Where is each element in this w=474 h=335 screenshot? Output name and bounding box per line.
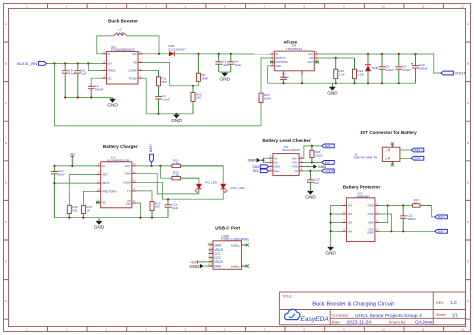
wire R22 to PG LED bbox=[180, 178, 199, 183]
resistor R14 1.2K bbox=[353, 58, 365, 83]
pin VM 2 bbox=[342, 212, 347, 214]
no-connect mount top bbox=[391, 142, 394, 145]
port BAT+ checker bbox=[322, 144, 335, 148]
ground flag USB bbox=[189, 264, 203, 269]
wire ISET to R16 bbox=[69, 175, 96, 206]
wire VS to VOUT bbox=[304, 170, 322, 172]
wire VIN+ to BAT+ row bbox=[304, 146, 322, 158]
pin ISET2 7 bbox=[96, 181, 101, 183]
resistor R5 158K bbox=[196, 54, 209, 81]
svg-text:10uF: 10uF bbox=[58, 173, 65, 177]
node A tie bbox=[262, 159, 264, 161]
wire OUT row with R21 bbox=[136, 165, 170, 167]
port BUCK_VIN bbox=[17, 61, 46, 66]
wire VM bus bbox=[331, 206, 342, 247]
svg-text:F: F bbox=[467, 220, 469, 224]
svg-text:TS: TS bbox=[127, 189, 131, 193]
LED CHG_LED bbox=[221, 184, 246, 193]
node buck rail junctions bbox=[157, 113, 159, 115]
wire BUCK_VIN down to R12 return bbox=[54, 63, 261, 126]
svg-text:100K: 100K bbox=[264, 96, 272, 100]
resistor R19 1K bbox=[81, 205, 92, 218]
inductor L2 3.3uH bbox=[114, 28, 126, 36]
svg-text:IN: IN bbox=[102, 164, 105, 168]
pin VBUS A9 bbox=[209, 259, 223, 265]
svg-text:GND: GND bbox=[214, 264, 222, 268]
pin FREQ 7 bbox=[102, 69, 107, 71]
ground charger bbox=[94, 218, 105, 230]
svg-text:TPS259621: TPS259621 bbox=[286, 47, 303, 51]
svg-text:MV/FLTb: MV/FLTb bbox=[276, 57, 286, 60]
port BAT- JST bbox=[411, 156, 424, 160]
wire GND8 to R17 bbox=[379, 205, 411, 207]
wire eFuse OUT node bbox=[319, 54, 441, 73]
pin VBUS B9 bbox=[209, 247, 223, 253]
wire EN to FREQ tie bbox=[88, 63, 102, 70]
pin EN 3 bbox=[102, 62, 107, 64]
svg-text:GND: GND bbox=[171, 118, 182, 123]
op-amp U3 charger IC3 BQ24090DGQR bbox=[107, 155, 130, 162]
pin CHG 4 bbox=[132, 181, 137, 183]
ground protector left bbox=[325, 246, 336, 255]
op-amp U2 eFuse IC4 TPS259621 bbox=[286, 44, 303, 51]
port VOUT checker bbox=[322, 169, 335, 173]
node R23 top bbox=[311, 145, 313, 147]
svg-text:470pF: 470pF bbox=[402, 68, 411, 72]
svg-text:USB-C Port: USB-C Port bbox=[215, 226, 240, 231]
pin OUT bbox=[314, 52, 319, 54]
wire SW to diode bbox=[143, 53, 169, 55]
pin GND A12 bbox=[208, 263, 222, 269]
node OUT junctions bbox=[367, 53, 369, 55]
svg-text:VOUT: VOUT bbox=[455, 70, 467, 75]
wire ISET2 to ground net bbox=[54, 182, 96, 184]
wire CHG LED cathode to CHG pin bbox=[136, 182, 223, 199]
EasyEDA logo bbox=[285, 309, 330, 323]
svg-text:12: 12 bbox=[461, 5, 465, 9]
wire A1 A0 tie bbox=[263, 158, 268, 162]
svg-text:SCL: SCL bbox=[253, 169, 260, 173]
LED PG_LED bbox=[195, 181, 218, 193]
connector J1 S2B-PH-SM4-TB bbox=[354, 145, 400, 164]
wire buck ground rail bbox=[146, 113, 193, 115]
svg-text:GAJose: GAJose bbox=[415, 320, 433, 326]
wire IN pin riser to inductor bbox=[97, 36, 114, 54]
svg-text:FB: FB bbox=[133, 61, 137, 65]
pin SHELL top bbox=[231, 243, 246, 247]
pin dVdT NC bbox=[314, 60, 319, 62]
port BAT+ protector bbox=[435, 215, 448, 219]
resistor R12 100K bbox=[259, 93, 272, 104]
wire IN rail bbox=[54, 165, 96, 167]
pin MODE bbox=[270, 56, 275, 58]
svg-text:GND: GND bbox=[107, 102, 118, 107]
pin GND B12 bbox=[208, 242, 222, 248]
node BUCK_VIN junctions bbox=[53, 62, 55, 64]
wire ILM to resistors bbox=[319, 57, 355, 59]
svg-text:H: H bbox=[467, 299, 469, 303]
svg-text:BUCK_VIN: BUCK_VIN bbox=[17, 61, 37, 66]
svg-text:1uF: 1uF bbox=[81, 72, 86, 76]
no-connect mount bottom bbox=[391, 163, 394, 166]
svg-text:1.2K: 1.2K bbox=[339, 72, 346, 76]
svg-text:2023-11-24: 2023-11-24 bbox=[347, 320, 372, 326]
capacitor C1 3.3nF bbox=[155, 86, 170, 114]
pin PAD bottom bbox=[301, 71, 303, 75]
wire pad to rail bbox=[301, 75, 303, 83]
resistor R15 10K bbox=[150, 201, 161, 217]
wire PRE-TERM to R19 bbox=[83, 191, 96, 205]
resistor R22 1.5K bbox=[171, 171, 199, 180]
node IN junctions bbox=[53, 165, 55, 167]
svg-text:ILM: ILM bbox=[309, 57, 313, 60]
wire J1 pin2 to BAT- bbox=[400, 157, 411, 159]
ground checker bbox=[305, 190, 316, 199]
wire R21 to CHG LED bbox=[180, 166, 223, 184]
svg-text:1.0: 1.0 bbox=[450, 300, 457, 305]
capacitor C10 100uF polarized bbox=[411, 54, 428, 83]
pin OUT 10 bbox=[132, 164, 137, 166]
svg-text:1.5K: 1.5K bbox=[173, 174, 180, 178]
svg-text:EN: EN bbox=[108, 62, 112, 66]
pin CC1 A5 bbox=[209, 250, 221, 256]
pin ISET 2 bbox=[96, 173, 101, 175]
pin SHELL bottom bbox=[231, 264, 246, 268]
wire FB to divider bbox=[143, 62, 194, 85]
ground buck output bbox=[171, 114, 182, 123]
svg-text:10: 10 bbox=[382, 5, 386, 9]
op-amp U4 monitor IC5 INA219AIDR bbox=[282, 145, 300, 152]
capacitor C13 10uF bbox=[165, 199, 179, 218]
svg-text:EasyEDA: EasyEDA bbox=[301, 316, 330, 323]
svg-text:1.2K: 1.2K bbox=[357, 72, 364, 76]
svg-text:GND: GND bbox=[248, 159, 257, 163]
svg-text:11: 11 bbox=[421, 5, 424, 9]
svg-text:F: F bbox=[5, 220, 7, 224]
svg-text:EPAD: EPAD bbox=[367, 231, 374, 234]
svg-text:PGND: PGND bbox=[129, 76, 137, 80]
svg-text:11: 11 bbox=[421, 328, 424, 332]
node rail junctions bbox=[64, 96, 66, 98]
wire BUCK_VIN to EN pin bbox=[47, 62, 102, 64]
svg-text:+5V: +5V bbox=[69, 152, 76, 156]
svg-text:12: 12 bbox=[461, 328, 465, 332]
pin FB 2 bbox=[138, 61, 143, 63]
resistor R11 15K bbox=[157, 70, 168, 86]
wire R5 to R10 jog bbox=[193, 81, 198, 86]
capacitor C3 10uF bbox=[215, 54, 229, 72]
resistor R23 0.002 shunt bbox=[310, 146, 323, 163]
svg-text:PG#: PG# bbox=[125, 171, 131, 175]
wire inductor to SW node bbox=[126, 36, 159, 54]
svg-text:Company:: Company: bbox=[332, 313, 349, 317]
pin COMP 1 bbox=[138, 69, 143, 71]
node VIN- junction bbox=[311, 161, 313, 163]
pin NC 10 bbox=[96, 201, 101, 203]
wire PGND down bbox=[143, 78, 147, 114]
pin IN bbox=[270, 52, 275, 54]
node SW inductor junction bbox=[158, 53, 160, 55]
node C15 tap bbox=[309, 170, 311, 172]
svg-text:100nF: 100nF bbox=[95, 87, 104, 91]
svg-text:Battery Level Checker: Battery Level Checker bbox=[262, 138, 310, 143]
svg-text:COMP: COMP bbox=[128, 69, 137, 73]
svg-text:10uF: 10uF bbox=[222, 63, 229, 67]
pin IN 3 bbox=[96, 164, 101, 166]
svg-text:BAT+: BAT+ bbox=[415, 148, 423, 152]
ground input rail bbox=[107, 98, 118, 108]
svg-text:Drawn By:: Drawn By: bbox=[389, 320, 407, 324]
svg-text:10K: 10K bbox=[155, 205, 161, 209]
svg-text:100nF: 100nF bbox=[385, 68, 394, 72]
wire VM3 bbox=[331, 222, 342, 224]
svg-text:REV: REV bbox=[436, 301, 444, 305]
power flag +5V USB bbox=[190, 260, 206, 264]
wire charger ground rail bbox=[54, 217, 168, 219]
port BAT+ JST bbox=[411, 148, 424, 152]
wire VM4 bbox=[331, 230, 342, 232]
pin ILM bbox=[314, 56, 319, 58]
svg-text:10nF: 10nF bbox=[282, 75, 289, 79]
svg-text:536: 536 bbox=[72, 209, 77, 213]
pin A0 bbox=[268, 161, 273, 163]
svg-text:Battery Charger: Battery Charger bbox=[103, 144, 138, 149]
pin PG 1 bbox=[132, 172, 137, 174]
svg-text:3.3nF: 3.3nF bbox=[162, 98, 170, 102]
svg-text:VM: VM bbox=[348, 204, 353, 208]
svg-text:OUT: OUT bbox=[125, 164, 131, 168]
pin SCL bbox=[268, 169, 273, 171]
ground flag GND pin bbox=[304, 164, 327, 169]
svg-text:GND: GND bbox=[219, 76, 230, 81]
svg-text:15K: 15K bbox=[161, 80, 167, 84]
pin PRE-TERM 6 bbox=[96, 190, 101, 192]
wire VSS to rail bbox=[136, 203, 140, 218]
svg-text:SL23 E3/52T: SL23 E3/52T bbox=[168, 47, 186, 51]
capacitor C15 1uF bbox=[307, 171, 320, 190]
svg-text:Buck Booster: Buck Booster bbox=[108, 19, 138, 24]
wire PG LED cathode to PG pin bbox=[136, 173, 199, 194]
port SDA bbox=[252, 165, 268, 169]
svg-text:VS: VS bbox=[294, 169, 298, 173]
svg-text:10uF: 10uF bbox=[171, 206, 178, 210]
svg-text:SS: SS bbox=[108, 76, 112, 80]
pin VM 1 bbox=[342, 204, 347, 206]
svg-text:B12: B12 bbox=[208, 242, 213, 246]
wire COMP to R11 bbox=[143, 69, 159, 71]
pin VIN- bbox=[299, 161, 304, 163]
svg-text:PG_LED: PG_LED bbox=[205, 181, 218, 185]
svg-text:PRE-TERM: PRE-TERM bbox=[102, 189, 117, 193]
capacitor C4 10uF bbox=[227, 54, 241, 72]
svg-text:VSS: VSS bbox=[126, 203, 131, 206]
wire VM2 bbox=[331, 213, 342, 215]
port SCL bbox=[253, 169, 269, 173]
wire VIN- row bbox=[304, 161, 322, 163]
node FB divider junction bbox=[192, 85, 194, 87]
node C11 top bbox=[402, 204, 404, 206]
svg-text:ISET: ISET bbox=[102, 173, 109, 177]
port BAT+ charger bbox=[149, 144, 154, 166]
svg-text:IN: IN bbox=[108, 52, 111, 56]
svg-text:Sheet:: Sheet: bbox=[436, 313, 446, 317]
title block bbox=[279, 292, 465, 326]
wire eFuse ground rail bbox=[268, 82, 416, 84]
resistor R10 18K bbox=[191, 86, 202, 114]
pin VM 3 bbox=[342, 221, 347, 223]
pin VDD 6 bbox=[375, 221, 380, 223]
svg-text:100uF: 100uF bbox=[419, 67, 428, 71]
capacitor C7 10nF bbox=[280, 71, 287, 83]
svg-text:IN: IN bbox=[276, 53, 279, 56]
wire C3 C4 ground rail bbox=[219, 71, 231, 73]
capacitor C9 470pF bbox=[395, 54, 411, 83]
svg-text:Buck Booster & Charging Circui: Buck Booster & Charging Circuit bbox=[312, 301, 394, 307]
pin SS 8 bbox=[102, 76, 107, 78]
svg-text:OVP/PROT: OVP/PROT bbox=[276, 61, 289, 64]
node charger rail junctions bbox=[68, 217, 70, 219]
wire MODE to R12 bbox=[261, 58, 270, 93]
diode D4 TVS bbox=[365, 54, 378, 83]
svg-text:FREQ: FREQ bbox=[108, 69, 117, 73]
pin PGND 4 bbox=[138, 76, 143, 78]
capacitor C11 100nF bbox=[400, 206, 416, 232]
svg-text:GND: GND bbox=[214, 243, 222, 247]
wire R17 to BAT+ bbox=[432, 206, 435, 217]
svg-text:E: E bbox=[5, 180, 7, 184]
resistor R16 536 bbox=[67, 205, 78, 218]
port VOUT bbox=[441, 70, 466, 75]
svg-text:VOUT: VOUT bbox=[325, 169, 334, 173]
node R22 feed bbox=[159, 165, 161, 167]
svg-text:BAT-: BAT- bbox=[325, 161, 332, 165]
svg-text:0.002: 0.002 bbox=[315, 154, 323, 158]
wire input ground rail bbox=[65, 97, 112, 99]
pin TS 3 bbox=[132, 189, 137, 191]
node BAT+ drop bbox=[150, 165, 152, 167]
svg-text:CHG#: CHG# bbox=[123, 180, 131, 184]
svg-text:GND: GND bbox=[94, 225, 105, 230]
svg-text:BAT+: BAT+ bbox=[325, 144, 333, 148]
node ISET2 tap bbox=[53, 182, 55, 184]
node output junctions bbox=[197, 53, 199, 55]
svg-text:E: E bbox=[467, 180, 469, 184]
resistor R17 1K bbox=[412, 198, 432, 207]
svg-text:TITLE:: TITLE: bbox=[282, 295, 292, 299]
svg-text:INA219AIDR: INA219AIDR bbox=[282, 148, 300, 152]
svg-text:NC: NC bbox=[102, 201, 106, 205]
svg-text:10: 10 bbox=[382, 328, 386, 332]
wire output node bbox=[174, 53, 275, 55]
svg-text:BAT-: BAT- bbox=[438, 230, 445, 234]
svg-text:Date:: Date: bbox=[332, 320, 341, 324]
pin SDA bbox=[268, 165, 273, 167]
node eFuse rail junctions bbox=[282, 82, 284, 84]
power flag +5V bbox=[69, 152, 76, 166]
svg-text:1uF: 1uF bbox=[314, 181, 319, 185]
wire J1 pin1 to BAT+ bbox=[400, 149, 411, 151]
svg-text:CHG_LED: CHG_LED bbox=[230, 186, 245, 190]
pin OVP NC bbox=[270, 60, 275, 62]
pin VS bbox=[299, 169, 304, 171]
svg-text:UHCL Senior Projects Group 4: UHCL Senior Projects Group 4 bbox=[355, 313, 422, 319]
node VDD tie bbox=[387, 204, 389, 206]
wire USB gnd bbox=[203, 265, 208, 267]
pin GND 8 bbox=[375, 204, 380, 206]
svg-text:VM: VM bbox=[348, 221, 353, 225]
node BAT- junctions bbox=[390, 230, 392, 232]
pin EP VSS 11 bbox=[132, 201, 137, 203]
svg-text:3.3uH: 3.3uH bbox=[116, 31, 124, 35]
svg-text:158K: 158K bbox=[201, 77, 209, 81]
op-amp U1 buck converter IC1 TPS61088DGKR bbox=[111, 45, 136, 52]
resistor R13 1.2K bbox=[334, 58, 346, 83]
svg-text:A: A bbox=[467, 22, 469, 26]
svg-text:Battery Protector: Battery Protector bbox=[343, 184, 381, 189]
pin GND right bbox=[299, 165, 304, 167]
svg-text:GND: GND bbox=[189, 264, 200, 269]
capacitor C6 10uF bbox=[62, 63, 76, 97]
node C13 tap bbox=[167, 198, 169, 200]
resistor R21 1.5K bbox=[171, 158, 224, 167]
svg-text:GND: GND bbox=[276, 65, 282, 68]
op-amp U5 protector IC2 XB6806D bbox=[356, 192, 370, 199]
svg-text:dVdT: dVdT bbox=[307, 61, 313, 64]
capacitor C2 100nF bbox=[88, 84, 104, 98]
capacitor C8 100nF bbox=[379, 54, 395, 83]
svg-text:S2B-PH-SM4-TB: S2B-PH-SM4-TB bbox=[354, 156, 378, 160]
pin IN 6 bbox=[102, 52, 107, 54]
ground flag A0 A1 bbox=[248, 158, 264, 163]
wire R22 feed bbox=[160, 166, 170, 178]
svg-text:VM: VM bbox=[348, 212, 353, 216]
port BAT- checker bbox=[322, 161, 335, 165]
pin SW 5 bbox=[138, 52, 143, 54]
wire VDD riser bbox=[379, 206, 387, 223]
pin GND 7 bbox=[375, 212, 380, 214]
wire TS to R15 bbox=[136, 191, 152, 202]
wire USB vbus bbox=[207, 261, 209, 263]
wire SS to C2 bbox=[91, 78, 102, 85]
svg-text:SHELL: SHELL bbox=[231, 243, 241, 247]
wire left GND pin to rail bbox=[268, 66, 271, 83]
svg-text:VDD: VDD bbox=[368, 221, 374, 225]
svg-text:SCL: SCL bbox=[274, 169, 280, 173]
svg-text:BAT+: BAT+ bbox=[149, 144, 153, 152]
svg-text:VM: VM bbox=[348, 229, 353, 233]
pin GND EPAD 5 bbox=[375, 230, 380, 232]
port BAT- protector bbox=[435, 229, 448, 233]
wire GND7 riser bbox=[379, 214, 391, 231]
svg-text:D3B: D3B bbox=[372, 66, 378, 70]
svg-text:18K: 18K bbox=[196, 96, 202, 100]
svg-text:1.5K: 1.5K bbox=[173, 161, 180, 165]
node R13 top bbox=[335, 57, 337, 59]
svg-text:GND: GND bbox=[367, 204, 373, 208]
diode D3 SL23 E3/52T bbox=[168, 44, 186, 56]
pin CC2 B5 bbox=[209, 254, 221, 260]
connector USB1 TYPE-C-6P bbox=[221, 234, 249, 241]
svg-text:BAT-: BAT- bbox=[415, 157, 422, 161]
ground C3 C4 bbox=[219, 72, 230, 81]
svg-text:B: B bbox=[5, 62, 7, 66]
svg-text:GND: GND bbox=[327, 90, 338, 95]
svg-text:GND: GND bbox=[325, 251, 336, 256]
svg-text:10uF: 10uF bbox=[69, 72, 76, 76]
capacitor C5 1uF bbox=[74, 63, 86, 97]
svg-text:100nF: 100nF bbox=[407, 217, 416, 221]
svg-text:A: A bbox=[5, 22, 7, 26]
